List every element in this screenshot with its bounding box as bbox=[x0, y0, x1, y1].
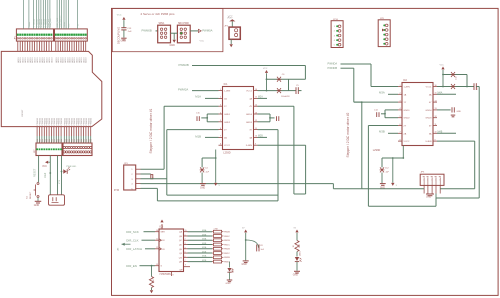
svg-text:VCC: VCC bbox=[200, 40, 205, 42]
svg-text:M2A: M2A bbox=[258, 95, 263, 98]
capacitor C4 bbox=[200, 167, 204, 172]
svg-text:GND3: GND3 bbox=[246, 122, 253, 124]
IC3 left pins bbox=[155, 231, 159, 233]
svg-text:15: 15 bbox=[185, 230, 187, 232]
svg-text:1A: 1A bbox=[224, 97, 227, 100]
svg-text:IC1: IC1 bbox=[224, 83, 229, 86]
wire pin2 jumper bbox=[141, 173, 151, 175]
svg-text:GND1: GND1 bbox=[224, 114, 231, 116]
svg-text:1Y: 1Y bbox=[224, 106, 227, 108]
svg-text:12: 12 bbox=[255, 120, 257, 122]
svg-text:4Y: 4Y bbox=[249, 106, 252, 108]
svg-text:1: 1 bbox=[220, 89, 221, 91]
wire bottom u-turn bbox=[167, 194, 278, 196]
svg-text:5: 5 bbox=[220, 120, 221, 122]
svg-text:5V: 5V bbox=[294, 228, 297, 230]
red stubs header to board top bbox=[17, 41, 19, 51]
svg-text:GND: GND bbox=[34, 204, 40, 207]
wire row3 right bbox=[258, 105, 294, 107]
wire row1 right IC2 bbox=[437, 86, 443, 88]
svg-text:.1uF: .1uF bbox=[385, 172, 390, 174]
svg-text:M4B: M4B bbox=[438, 131, 443, 133]
svg-text:G: G bbox=[161, 266, 163, 268]
wire vertical x166 bbox=[166, 130, 168, 196]
svg-text:SER: SER bbox=[161, 232, 166, 234]
wire row7 bbox=[205, 136, 219, 138]
ground arrow bbox=[173, 40, 176, 43]
ground arrow bbox=[150, 290, 153, 293]
svg-text:FTDI: FTDI bbox=[114, 190, 119, 192]
capacitor C13 bbox=[121, 27, 126, 29]
capacitor C5 bbox=[289, 90, 297, 92]
svg-text:PWM10: PWM10 bbox=[61, 117, 63, 125]
svg-text:13: 13 bbox=[156, 264, 158, 266]
svg-text:R16: R16 bbox=[153, 278, 155, 283]
svg-text:PWM0B: PWM0B bbox=[142, 29, 152, 33]
svg-text:QF: QF bbox=[179, 253, 183, 255]
svg-text:VCC1: VCC1 bbox=[426, 87, 433, 89]
wire bbox=[229, 262, 231, 268]
vcc symbol near IC2 bbox=[441, 67, 444, 70]
svg-text:100uF/6V: 100uF/6V bbox=[281, 96, 290, 98]
svg-text:5V: 5V bbox=[242, 228, 245, 230]
wire loop A bbox=[362, 188, 424, 190]
svg-text:5: 5 bbox=[185, 252, 186, 254]
svg-text:VCC1: VCC1 bbox=[246, 91, 253, 93]
svg-text:C5: C5 bbox=[296, 85, 299, 87]
svg-text:C14: C14 bbox=[374, 110, 379, 112]
svg-text:6: 6 bbox=[220, 128, 221, 130]
svg-text:GND: GND bbox=[426, 196, 431, 198]
svg-text:GND2: GND2 bbox=[224, 122, 231, 124]
svg-text:11: 11 bbox=[435, 124, 437, 126]
svg-text:VCC2: VCC2 bbox=[224, 145, 231, 147]
wire cap row A2 bbox=[443, 74, 467, 76]
svg-text:1-2EN: 1-2EN bbox=[224, 91, 231, 93]
svg-text:C15: C15 bbox=[196, 113, 201, 115]
svg-text:1A: 1A bbox=[404, 93, 407, 96]
capacitor C6 bbox=[277, 77, 281, 82]
wire row6 bbox=[167, 129, 219, 131]
svg-text:1: 1 bbox=[399, 85, 400, 87]
svg-text:M2A: M2A bbox=[202, 255, 207, 258]
svg-text:FB2B: FB2B bbox=[224, 249, 230, 251]
svg-text:5: 5 bbox=[399, 116, 400, 118]
svg-text:M4A: M4A bbox=[202, 238, 207, 241]
svg-text:3: 3 bbox=[131, 179, 133, 181]
ground GND jp5 bbox=[426, 193, 434, 195]
wire row6 right bbox=[258, 129, 279, 131]
pin header JP8 bottom right bbox=[63, 143, 92, 156]
svg-text:RESET: RESET bbox=[22, 109, 24, 117]
svg-text:GND4: GND4 bbox=[246, 114, 253, 116]
net arrow left bbox=[122, 243, 131, 245]
svg-text:M4A: M4A bbox=[438, 91, 443, 94]
led LED2 bbox=[227, 268, 231, 272]
svg-text:M2B: M2B bbox=[258, 135, 263, 137]
svg-text:L293D: L293D bbox=[373, 149, 381, 152]
svg-text:GND: GND bbox=[121, 40, 127, 43]
wire row1 right bbox=[258, 90, 267, 92]
svg-text:QB: QB bbox=[179, 236, 183, 238]
svg-text:DIR_CLK: DIR_CLK bbox=[50, 17, 52, 26]
svg-text:10: 10 bbox=[255, 136, 257, 138]
svg-text:M3A: M3A bbox=[379, 90, 385, 94]
JP5 stubs bbox=[423, 178, 425, 186]
svg-text:GND2: GND2 bbox=[404, 118, 411, 120]
wire cap row B2 bbox=[443, 86, 474, 88]
svg-text:D1: D1 bbox=[61, 139, 63, 141]
svg-text:2: 2 bbox=[220, 97, 221, 99]
svg-text:QC: QC bbox=[179, 240, 183, 242]
wire row3 left IC2 bbox=[354, 101, 398, 103]
svg-text:M1A: M1A bbox=[202, 246, 207, 249]
svg-text:2: 2 bbox=[334, 31, 335, 33]
capacitor C8 bbox=[246, 240, 259, 248]
svg-text:3: 3 bbox=[399, 100, 400, 102]
svg-text:S1: S1 bbox=[27, 196, 29, 199]
vcc symbol bbox=[229, 19, 235, 21]
svg-text:1-2EN: 1-2EN bbox=[404, 87, 411, 89]
pin header JP7 bottom left bbox=[36, 143, 62, 156]
svg-text:1: 1 bbox=[131, 169, 133, 171]
svg-text:GND: GND bbox=[293, 275, 298, 277]
svg-text:DIR_CLK: DIR_CLK bbox=[126, 238, 138, 242]
svg-text:3A: 3A bbox=[429, 132, 432, 135]
wire below IC2 bbox=[402, 146, 404, 159]
svg-text:M1A: M1A bbox=[63, 22, 66, 27]
svg-text:1: 1 bbox=[334, 26, 335, 28]
svg-text:AD10: AD10 bbox=[50, 57, 53, 63]
svg-text:3Y: 3Y bbox=[249, 130, 252, 132]
svg-text:12: 12 bbox=[156, 247, 158, 249]
svg-text:13: 13 bbox=[255, 112, 257, 114]
svg-text:3-4EN: 3-4EN bbox=[425, 141, 432, 143]
net arrow bbox=[198, 29, 201, 32]
svg-text:C8: C8 bbox=[260, 245, 263, 247]
svg-text:1K: 1K bbox=[293, 244, 295, 247]
svg-text:GND: GND bbox=[457, 111, 462, 113]
svg-text:15: 15 bbox=[435, 93, 437, 95]
svg-text:QH*: QH* bbox=[179, 270, 183, 272]
wire row7 left IC2 bbox=[388, 132, 398, 134]
svg-text:PWM10: PWM10 bbox=[91, 117, 93, 125]
svg-text:LED1: LED1 bbox=[300, 250, 302, 256]
svg-text:7: 7 bbox=[185, 260, 186, 262]
svg-text:FB1C: FB1C bbox=[224, 244, 230, 246]
svg-text:DIR_SCK: DIR_SCK bbox=[126, 230, 139, 234]
wire PWNDB bbox=[341, 67, 354, 69]
svg-text:2 Servo or 4ch PWM pins: 2 Servo or 4ch PWM pins bbox=[141, 12, 176, 16]
svg-text:Stepper / 2 DC motor driver #2: Stepper / 2 DC motor driver #2 bbox=[346, 112, 350, 157]
svg-text:QE: QE bbox=[179, 249, 183, 251]
svg-text:13: 13 bbox=[435, 108, 437, 110]
svg-text:QA: QA bbox=[179, 231, 183, 234]
svg-text:FB3B: FB3B bbox=[224, 257, 230, 259]
svg-text:8: 8 bbox=[399, 139, 400, 141]
svg-text:M3B: M3B bbox=[379, 129, 385, 133]
svg-text:74HC595N: 74HC595N bbox=[159, 274, 171, 276]
wire row8 right long IC2 bbox=[437, 140, 475, 142]
svg-text:M1B: M1B bbox=[202, 251, 207, 253]
svg-text:C10: C10 bbox=[456, 75, 458, 80]
vcc symbol near IC1 bbox=[265, 70, 268, 73]
svg-text:FB0C: FB0C bbox=[224, 236, 230, 238]
svg-text:M4B: M4B bbox=[202, 243, 207, 245]
pin header JP1 left bbox=[16, 29, 53, 41]
wire rows45 right bbox=[258, 113, 271, 115]
svg-text:M1B: M1B bbox=[195, 135, 201, 139]
svg-text:VCC: VCC bbox=[42, 166, 47, 168]
svg-text:12: 12 bbox=[435, 116, 437, 118]
svg-text:6: 6 bbox=[185, 256, 186, 258]
svg-text:C6: C6 bbox=[282, 74, 285, 76]
svg-text:FB2C: FB2C bbox=[224, 253, 230, 255]
svg-text:6: 6 bbox=[399, 124, 400, 126]
ground arrow bbox=[230, 44, 233, 47]
svg-text:5: 5 bbox=[334, 45, 335, 47]
svg-text:3: 3 bbox=[220, 105, 221, 107]
svg-text:PWNDA: PWNDA bbox=[328, 62, 338, 66]
servo group box bbox=[112, 8, 223, 51]
svg-text:PWR LED: PWR LED bbox=[66, 166, 76, 168]
svg-text:5: 5 bbox=[219, 185, 221, 187]
wire vertical x164 bbox=[163, 106, 165, 169]
wire vertical x368 bbox=[367, 126, 369, 207]
vcc symbol V1 bbox=[122, 17, 125, 20]
wire pin1 to vertical bbox=[141, 168, 165, 170]
resistor R17 bbox=[295, 241, 299, 252]
svg-text:2: 2 bbox=[185, 239, 186, 241]
resonator Q1 bbox=[49, 195, 65, 205]
wire row2 left IC2 bbox=[388, 93, 398, 95]
svg-text:DIR_EN: DIR_EN bbox=[126, 264, 137, 268]
wire row2 right M4A bbox=[437, 93, 456, 95]
svg-text:8: 8 bbox=[173, 275, 174, 277]
svg-text:9: 9 bbox=[185, 265, 186, 267]
svg-text:M3A: M3A bbox=[202, 229, 207, 232]
red stubs board to bottom headers bbox=[36, 127, 38, 136]
svg-text:IC2: IC2 bbox=[403, 79, 408, 82]
wire cap row B bbox=[267, 90, 289, 92]
svg-text:4: 4 bbox=[131, 184, 133, 186]
svg-text:QG: QG bbox=[179, 257, 183, 259]
wire row4 right cap bbox=[437, 109, 451, 111]
svg-text:2Y: 2Y bbox=[224, 130, 227, 132]
resistor R16 bbox=[151, 266, 153, 277]
svg-text:VCC: VCC bbox=[440, 65, 445, 67]
svg-text:DIR_LATCH: DIR_LATCH bbox=[126, 247, 142, 251]
ground GND bbox=[200, 183, 206, 185]
svg-text:M3B: M3B bbox=[202, 234, 207, 236]
wire bbox=[171, 32, 178, 34]
wire row7 right M4B bbox=[437, 132, 456, 134]
wire bbox=[215, 158, 217, 183]
svg-text:C9: C9 bbox=[477, 87, 479, 90]
svg-text:M2B: M2B bbox=[202, 260, 207, 262]
svg-text:DIR_LATCH: DIR_LATCH bbox=[59, 15, 62, 27]
svg-text:GND: GND bbox=[242, 264, 247, 266]
ground GND1 bbox=[121, 37, 126, 39]
svg-text:10: 10 bbox=[435, 132, 437, 134]
wire bbox=[230, 39, 232, 44]
IC3 right pins bbox=[184, 231, 188, 233]
svg-text:PWM2A: PWM2A bbox=[178, 87, 188, 91]
wire pin5 bbox=[141, 187, 158, 189]
svg-text:2: 2 bbox=[399, 93, 400, 95]
wire loop D bbox=[368, 205, 436, 207]
ground GND bbox=[227, 279, 233, 281]
svg-text:4A: 4A bbox=[249, 97, 252, 100]
svg-text:.1uF: .1uF bbox=[260, 249, 265, 251]
wire PWM2B bbox=[192, 65, 305, 67]
svg-text:VCC: VCC bbox=[227, 17, 232, 19]
svg-text:LED2: LED2 bbox=[232, 268, 234, 273]
svg-text:8: 8 bbox=[220, 144, 221, 146]
svg-text:2Y: 2Y bbox=[404, 126, 407, 128]
svg-text:RESET: RESET bbox=[34, 168, 37, 177]
wire row2 bbox=[205, 97, 219, 99]
wire PWNDA bbox=[341, 63, 372, 65]
svg-text:3-4EN: 3-4EN bbox=[246, 145, 253, 147]
svg-text:11: 11 bbox=[156, 239, 158, 241]
svg-text:GND: GND bbox=[226, 283, 231, 285]
wire row8 right long bbox=[258, 144, 306, 146]
wire row7 right M2B bbox=[258, 136, 268, 138]
resistor array R8-R15 bbox=[213, 230, 221, 233]
svg-text:GND: GND bbox=[200, 188, 205, 190]
svg-text:C12: C12 bbox=[385, 167, 390, 169]
svg-text:GND: GND bbox=[170, 44, 176, 47]
svg-text:4: 4 bbox=[220, 112, 221, 114]
wire row3 bbox=[164, 105, 218, 107]
svg-text:L293D: L293D bbox=[223, 151, 231, 154]
wires IC3 to resistors bbox=[188, 231, 213, 233]
svg-text:PWM0A: PWM0A bbox=[202, 29, 212, 33]
svg-text:QH: QH bbox=[179, 262, 183, 264]
svg-text:10uF: 10uF bbox=[45, 172, 47, 178]
svg-text:A3: A3 bbox=[117, 247, 120, 250]
svg-text:.1uF: .1uF bbox=[127, 31, 132, 33]
svg-text:3: 3 bbox=[334, 35, 335, 37]
svg-text:15: 15 bbox=[255, 97, 257, 99]
cap C15 rows45 bbox=[207, 113, 218, 115]
svg-text:3: 3 bbox=[185, 243, 186, 245]
ground GND bbox=[294, 270, 300, 272]
ground arrow bbox=[214, 183, 217, 186]
svg-text:VCC2: VCC2 bbox=[404, 141, 411, 143]
vcc arrow LED string bbox=[295, 230, 298, 233]
svg-text:1: 1 bbox=[185, 234, 186, 236]
wire reset net bbox=[38, 156, 40, 182]
wire loop C bbox=[435, 194, 437, 199]
ground GND bbox=[243, 260, 249, 262]
vcc symbol 5V bbox=[244, 230, 247, 233]
wire to resonator pin2 bbox=[57, 156, 59, 195]
led PWR bbox=[63, 169, 67, 174]
svg-text:3Y: 3Y bbox=[429, 126, 432, 128]
svg-text:.1uF: .1uF bbox=[205, 172, 210, 174]
svg-text:9: 9 bbox=[255, 144, 256, 146]
svg-text:D1: D1 bbox=[91, 139, 93, 141]
svg-text:4: 4 bbox=[399, 108, 400, 110]
ic IC3 body bbox=[159, 229, 184, 272]
svg-text:JP2: JP2 bbox=[224, 25, 229, 27]
wire row2 right M2A bbox=[258, 97, 268, 99]
svg-text:4Y: 4Y bbox=[429, 102, 432, 104]
wires DIR bbox=[144, 231, 156, 233]
wire pin3 to vertical bbox=[141, 178, 167, 180]
wire bbox=[190, 30, 198, 32]
svg-text:14: 14 bbox=[255, 105, 257, 107]
svg-text:11: 11 bbox=[255, 128, 257, 130]
svg-text:2: 2 bbox=[131, 174, 133, 176]
svg-text:C4: C4 bbox=[205, 167, 208, 169]
wires to top headers bbox=[23, 0, 25, 29]
arduino shield board outline bbox=[1, 51, 102, 126]
svg-text:16: 16 bbox=[255, 89, 257, 91]
svg-text:4: 4 bbox=[185, 247, 186, 249]
svg-text:3A: 3A bbox=[249, 136, 252, 139]
svg-text:VCC: VCC bbox=[117, 14, 122, 16]
svg-text:1 R8: 1 R8 bbox=[214, 228, 218, 230]
svg-text:7: 7 bbox=[220, 136, 221, 138]
svg-text:14: 14 bbox=[435, 100, 437, 102]
LED1 bbox=[295, 257, 299, 261]
cap rows45 left IC2 bbox=[385, 109, 398, 111]
svg-text:AREF: AREF bbox=[28, 20, 31, 26]
svg-text:GND1: GND1 bbox=[404, 110, 411, 112]
wire bbox=[392, 158, 394, 183]
svg-text:PWNDB: PWNDB bbox=[328, 66, 338, 70]
svg-text:GND3: GND3 bbox=[425, 118, 432, 120]
svg-text:JP5: JP5 bbox=[421, 172, 426, 174]
svg-text:2A: 2A bbox=[224, 136, 227, 139]
svg-text:2A: 2A bbox=[404, 132, 407, 135]
vcc arrow small bbox=[45, 161, 48, 164]
svg-text:M1A: M1A bbox=[195, 95, 201, 99]
ground arrow bbox=[391, 183, 394, 186]
svg-text:RESET: RESET bbox=[30, 191, 32, 199]
svg-text:Stepper / 2 DC motor driver #1: Stepper / 2 DC motor driver #1 bbox=[149, 108, 153, 153]
wire below IC1 bbox=[215, 150, 217, 159]
svg-text:AD10: AD10 bbox=[85, 57, 88, 63]
ground GND bbox=[35, 200, 42, 202]
wire bbox=[173, 33, 175, 39]
svg-text:4: 4 bbox=[334, 40, 335, 42]
svg-text:5: 5 bbox=[396, 185, 398, 187]
wire row1 bbox=[192, 90, 219, 92]
wire x333 drop bbox=[332, 184, 334, 189]
solder jumper SJ1 bbox=[151, 175, 153, 179]
svg-text:QD: QD bbox=[179, 245, 183, 247]
wire gnd drop right bbox=[478, 87, 480, 199]
svg-text:GND4: GND4 bbox=[425, 110, 432, 112]
wire cap row A bbox=[267, 78, 306, 80]
capacitor C11 bbox=[451, 84, 455, 89]
svg-text:1Y: 1Y bbox=[404, 102, 407, 104]
svg-text:FB0B: FB0B bbox=[224, 232, 230, 234]
capacitor C9 bbox=[473, 83, 475, 90]
svg-text:16: 16 bbox=[435, 85, 437, 87]
LED power wire bbox=[61, 156, 63, 195]
svg-text:VCC: VCC bbox=[263, 68, 268, 70]
wire loop B bbox=[440, 188, 475, 190]
capacitor C10 bbox=[451, 72, 455, 77]
wire joining h from left bbox=[333, 188, 361, 190]
svg-text:XT1: XT1 bbox=[59, 179, 61, 184]
svg-text:14: 14 bbox=[156, 230, 158, 232]
